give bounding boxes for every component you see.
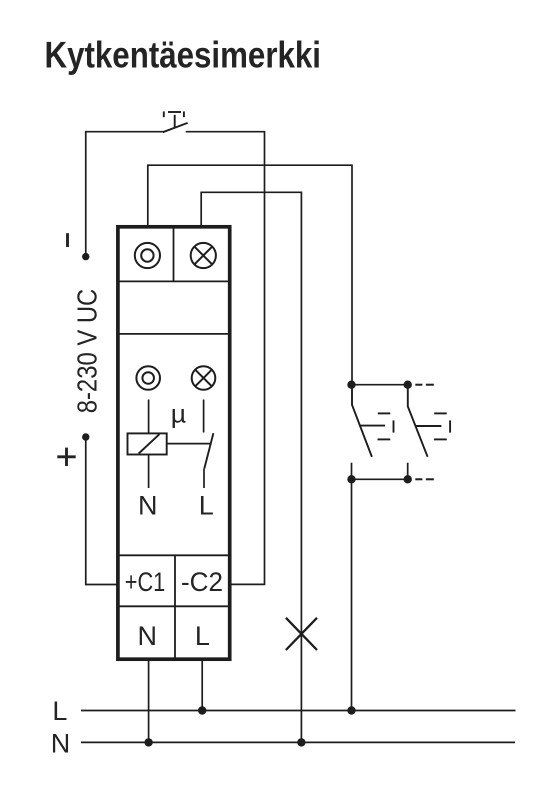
- svg-text:-C2: -C2: [181, 567, 223, 597]
- wire: bottom switch bus: [352, 478, 408, 480]
- node: bottom switch junction left: [347, 475, 355, 483]
- dashed continuation bottom: [415, 478, 434, 480]
- box divider 2: [120, 333, 229, 335]
- wire: switches to L rail: [351, 479, 353, 710]
- wire: pushbutton S1 to -C2 terminal: [186, 132, 265, 585]
- wire: contact lower pin: [203, 469, 205, 488]
- pushbutton S1 contact blade: [163, 123, 188, 132]
- dashed continuation top: [415, 384, 434, 386]
- svg-text:Kytkentäesimerkki: Kytkentäesimerkki: [45, 34, 322, 75]
- wire: contact upper pin: [203, 400, 205, 433]
- box divider 1: [120, 280, 229, 282]
- svg-text:N: N: [51, 729, 71, 759]
- wire: coil pin from inner terminal: [148, 400, 150, 434]
- pushbutton S1 actuator cap: [164, 111, 184, 127]
- switch S3 contact blade: [408, 385, 428, 457]
- label plus (rotated): [57, 448, 75, 466]
- node: minus supply terminal: [82, 253, 89, 260]
- terminal symbol (double circle) top-left cell: [135, 243, 160, 268]
- terminal symbol (double circle) inner left: [136, 366, 160, 390]
- wire: box N terminal to N rail: [148, 659, 150, 742]
- node: top switch junction left: [347, 381, 355, 389]
- relay contact blade: [204, 433, 213, 468]
- N rail: [81, 741, 515, 743]
- node: L wire on L rail: [198, 706, 206, 714]
- box top cell divider: [173, 229, 175, 282]
- svg-text:L: L: [195, 621, 210, 651]
- wire: coil bottom pin: [148, 455, 150, 489]
- wire: top switch bus: [352, 384, 408, 386]
- svg-text:N: N: [138, 490, 158, 520]
- svg-text:N: N: [137, 621, 157, 651]
- wire: net A1 (top-left box terminal to switches S2/S3): [148, 165, 352, 381]
- wire: net lamp output (top-right box terminal to lamp point and N rail): [201, 192, 301, 742]
- node: lamp point wire on N rail: [297, 738, 305, 746]
- svg-text:8-230 V UC: 8-230 V UC: [71, 289, 102, 414]
- lamp symbol (circle-X) inner right: [192, 366, 216, 390]
- wire: minus terminal up to pushbutton S1: [86, 132, 163, 253]
- wire: box L terminal to L rail: [201, 659, 203, 711]
- svg-text:+C1: +C1: [125, 567, 166, 597]
- device box U1 outline: [118, 227, 230, 659]
- node: N wire on N rail: [144, 738, 152, 746]
- switch S2 contact blade: [352, 381, 372, 457]
- svg-text:L: L: [52, 696, 67, 726]
- relay coil K1: [128, 433, 167, 454]
- switch S2 actuator link: [359, 425, 385, 427]
- svg-text:µ: µ: [171, 399, 186, 429]
- switch S3 actuator cap: [434, 413, 450, 439]
- label minus (rotated): [66, 233, 69, 247]
- node: plus supply terminal: [82, 433, 89, 440]
- wire: plus terminal to +C1: [86, 440, 117, 585]
- box divider 4: [120, 605, 229, 607]
- node: bottom switch junction right: [404, 475, 412, 483]
- node: top switch junction right: [404, 381, 412, 389]
- lamp symbol (circle-X) top-right cell: [191, 243, 216, 268]
- switch S2 actuator cap: [378, 413, 394, 439]
- wire: S3 lower terminal stub: [407, 463, 409, 480]
- svg-text:L: L: [199, 490, 214, 520]
- L rail: [81, 710, 516, 712]
- mechanical link coil to contact: [167, 443, 211, 445]
- lamp point X: [286, 618, 317, 650]
- switch S3 actuator link: [416, 425, 442, 427]
- node: switch wire on L rail: [347, 706, 355, 714]
- box bottom cells divider: [174, 555, 176, 657]
- wire: S2 lower terminal stub: [351, 463, 353, 480]
- box divider 3: [120, 554, 229, 556]
